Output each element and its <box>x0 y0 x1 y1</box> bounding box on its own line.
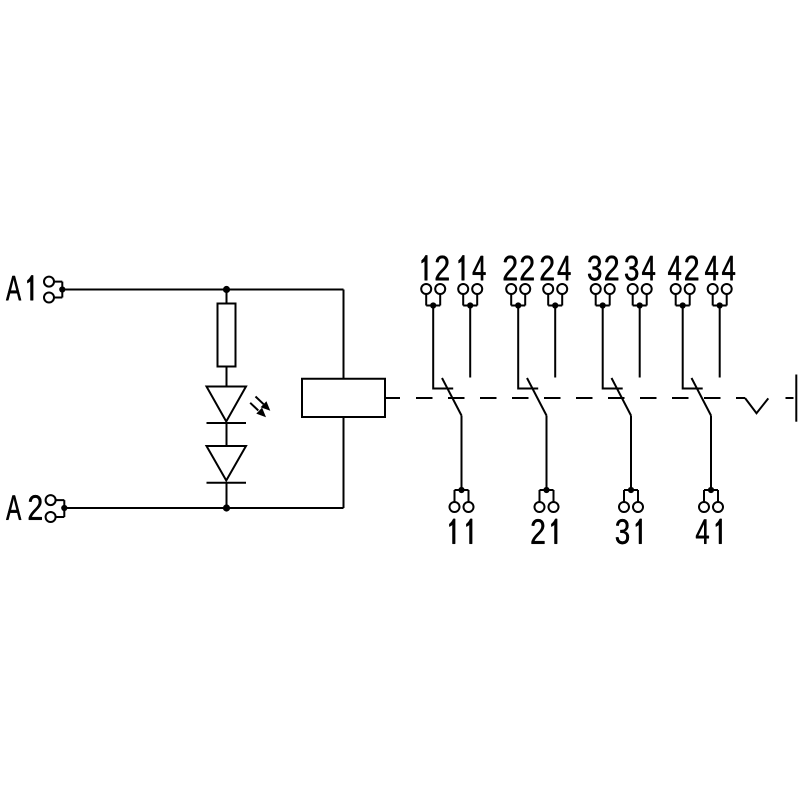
wire NO contact 44 <box>719 306 721 378</box>
wire coil bottom <box>343 417 345 508</box>
terminal 41 <box>699 487 723 512</box>
terminal A1 <box>44 277 65 303</box>
linkage end dash <box>786 397 794 399</box>
resistor R1 <box>218 304 236 367</box>
terminal 44 <box>708 284 732 309</box>
wire NC contact 32 <box>603 306 623 389</box>
wire NC contact 12 <box>433 306 453 389</box>
label 12 <box>422 255 449 280</box>
terminal 42 <box>671 284 695 309</box>
terminal 24 <box>543 284 567 309</box>
LED D1 <box>207 387 247 424</box>
label 41 <box>696 519 722 544</box>
terminal 12 <box>421 284 445 309</box>
LED arrows <box>250 397 270 418</box>
terminal 34 <box>628 284 652 309</box>
wire NC contact 22 <box>518 306 538 389</box>
node bottom junction <box>223 504 230 511</box>
switch blade 1 <box>442 378 462 416</box>
label 11 <box>449 519 472 544</box>
linkage kink <box>745 398 768 413</box>
terminal 11 <box>450 487 474 512</box>
wire NC contact 42 <box>683 306 703 389</box>
label 32 <box>588 256 618 281</box>
wire common 31 <box>630 416 632 491</box>
wire NO contact 14 <box>469 306 471 378</box>
wire to resistor <box>226 290 228 304</box>
terminal 14 <box>458 284 482 309</box>
armature dashed linkage <box>416 397 745 399</box>
wire bottom rail <box>64 507 343 509</box>
terminal 32 <box>591 284 615 309</box>
wire NO contact 34 <box>639 306 641 378</box>
switch blade 2 <box>527 378 547 416</box>
label 34 <box>625 256 655 281</box>
terminal 31 <box>619 487 643 512</box>
wire armature stub <box>385 397 400 399</box>
label 24 <box>541 256 571 281</box>
label A1 <box>6 275 33 300</box>
terminal A2 <box>46 495 68 522</box>
terminal 22 <box>506 284 530 309</box>
wire common 41 <box>710 416 712 491</box>
wire LED to diode <box>226 423 228 446</box>
relay coil K1 <box>302 379 385 417</box>
wire coil top <box>343 290 345 379</box>
label 21 <box>532 519 558 544</box>
wire diode to bottom rail <box>226 483 228 508</box>
label 42 <box>668 256 698 281</box>
label 22 <box>504 256 534 281</box>
diode D2 <box>207 446 247 483</box>
label 14 <box>459 255 486 280</box>
label A2 <box>6 495 42 520</box>
switch blade 3 <box>612 378 632 416</box>
label 44 <box>705 256 735 280</box>
wire common 21 <box>546 416 548 491</box>
switch blade 4 <box>692 378 712 416</box>
wire NO contact 24 <box>554 306 556 378</box>
terminal 21 <box>535 487 559 512</box>
wire resistor to LED <box>226 367 228 387</box>
linkage end bar <box>795 375 797 422</box>
wire top rail <box>62 289 343 291</box>
wire common 11 <box>461 416 463 491</box>
label 31 <box>616 519 642 544</box>
node top junction <box>223 286 230 293</box>
